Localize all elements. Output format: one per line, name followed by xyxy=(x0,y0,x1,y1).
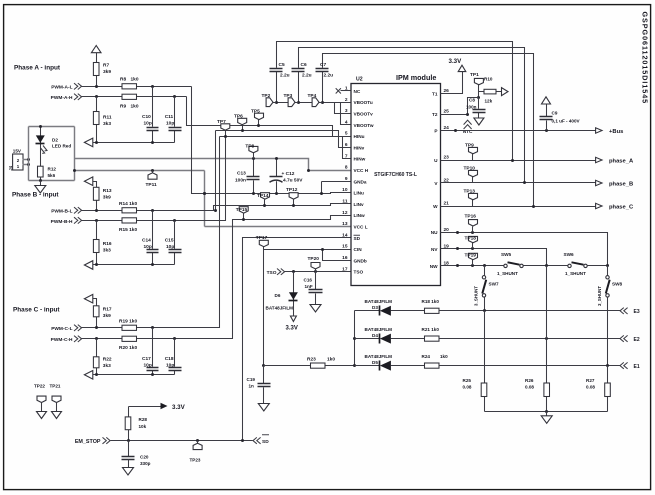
svg-text:TP8: TP8 xyxy=(245,143,254,149)
test point TP1 xyxy=(478,85,480,98)
svg-text:Phase A - input: Phase A - input xyxy=(14,65,61,72)
svg-text:R13: R13 xyxy=(103,188,112,194)
test point TP14 xyxy=(264,200,266,206)
svg-text:TSO: TSO xyxy=(267,270,277,276)
ground arrow phase B xyxy=(84,261,92,270)
test point TP13 xyxy=(472,200,474,207)
wire HINu feed L1 xyxy=(187,97,351,137)
wire J4 pin1 stub xyxy=(23,164,29,166)
svg-text:EM_STOP: EM_STOP xyxy=(75,439,101,445)
svg-text:C19: C19 xyxy=(247,377,256,382)
input connector PWM-A-L xyxy=(74,83,82,89)
svg-text:SW8: SW8 xyxy=(612,282,623,287)
svg-text:R12: R12 xyxy=(48,166,57,171)
shunt resistor R26 xyxy=(546,266,548,412)
svg-text:3k3: 3k3 xyxy=(103,363,111,369)
svg-text:TP11: TP11 xyxy=(146,182,158,188)
capacitor C20 xyxy=(128,441,130,457)
capacitor C8 xyxy=(478,98,480,119)
wire phase C ground bus xyxy=(93,374,175,376)
svg-text:SW5: SW5 xyxy=(501,252,512,257)
svg-text:P: P xyxy=(434,129,437,134)
svg-text:12: 12 xyxy=(342,210,348,216)
wire E bus left vertical xyxy=(354,311,356,366)
resistor R17 xyxy=(96,306,98,328)
output arrow phase_C xyxy=(596,203,602,208)
wire T2 line xyxy=(441,114,468,116)
svg-text:R25: R25 xyxy=(463,378,472,383)
svg-text:D4: D4 xyxy=(372,333,378,338)
svg-text:VBOOTu: VBOOTu xyxy=(354,100,373,105)
svg-text:10p: 10p xyxy=(166,244,174,250)
input connector TSO xyxy=(277,269,285,275)
wire PWM-B-H line xyxy=(82,137,226,221)
svg-text:5k6: 5k6 xyxy=(48,173,56,178)
test point TP12 xyxy=(293,200,295,206)
svg-text:2.2u: 2.2u xyxy=(280,73,290,79)
svg-text:E3: E3 xyxy=(634,309,640,315)
wire J4 pin2 stub xyxy=(23,159,29,161)
svg-text:D3: D3 xyxy=(372,305,378,310)
svg-text:20: 20 xyxy=(444,227,450,233)
wire EM_STOP line xyxy=(111,440,253,442)
svg-text:W: W xyxy=(433,204,438,209)
svg-text:J4: J4 xyxy=(8,165,13,170)
resistor R12 xyxy=(38,166,44,177)
svg-text:+ C12: + C12 xyxy=(282,171,295,177)
svg-text:1_SHUNT: 1_SHUNT xyxy=(497,271,518,276)
wire P +Bus line xyxy=(441,130,596,132)
svg-text:4.7u 50V: 4.7u 50V xyxy=(283,178,303,184)
svg-text:TP20: TP20 xyxy=(308,256,320,262)
test point TP3 xyxy=(295,102,299,104)
test point TP11 xyxy=(151,169,154,172)
svg-text:TP15: TP15 xyxy=(236,207,248,213)
capacitor C18 xyxy=(174,339,176,375)
svg-text:TP12: TP12 xyxy=(286,187,298,193)
svg-text:3k9: 3k9 xyxy=(103,195,111,201)
svg-text:TP2: TP2 xyxy=(262,93,271,99)
wire U phase_A line xyxy=(441,160,596,162)
svg-text:HINw: HINw xyxy=(354,157,366,162)
connector J4 15V xyxy=(13,154,23,170)
wire CIN net xyxy=(264,249,351,251)
wire D2 loop top xyxy=(29,126,75,128)
svg-text:C20: C20 xyxy=(140,454,149,459)
svg-text:TP7: TP7 xyxy=(217,119,226,125)
svg-text:PWM-A-L: PWM-A-L xyxy=(51,85,72,91)
capacitor C19 xyxy=(263,366,265,404)
svg-text:R26: R26 xyxy=(525,378,534,383)
wire LINu feed from A-L xyxy=(192,87,351,194)
svg-text:0,1 uF - 400V: 0,1 uF - 400V xyxy=(552,119,581,124)
input connector PWM-B-H xyxy=(74,217,82,223)
svg-text:3_SHUNT: 3_SHUNT xyxy=(597,286,602,306)
NTC marker xyxy=(464,120,472,129)
svg-text:TP13: TP13 xyxy=(464,189,476,195)
test point TP16 xyxy=(472,227,474,233)
svg-text:10: 10 xyxy=(342,187,348,193)
svg-text:C11: C11 xyxy=(165,114,174,120)
test point TP20 xyxy=(315,269,317,272)
svg-text:C8: C8 xyxy=(469,98,475,103)
svg-text:1n: 1n xyxy=(249,384,255,389)
svg-text:E1: E1 xyxy=(634,364,640,370)
wire V phase_B line xyxy=(441,182,596,184)
svg-text:TP14: TP14 xyxy=(257,193,269,199)
wire PWM-A-H line xyxy=(82,96,187,98)
svg-text:C16: C16 xyxy=(304,277,313,282)
svg-text:R14 1k0: R14 1k0 xyxy=(119,201,137,207)
wire GNDa bus junction xyxy=(203,192,206,195)
svg-text:C17: C17 xyxy=(142,356,151,362)
test point TP9 xyxy=(472,154,474,161)
ground below C19 xyxy=(258,404,269,412)
svg-text:SD: SD xyxy=(262,439,269,445)
switch SW8 3_SHUNT xyxy=(607,266,609,276)
svg-text:6: 6 xyxy=(345,142,348,148)
svg-text:TP21: TP21 xyxy=(50,383,61,388)
svg-text:R19 1k0: R19 1k0 xyxy=(119,318,137,324)
svg-text:C9: C9 xyxy=(552,111,558,116)
svg-text:0.08: 0.08 xyxy=(586,385,595,390)
svg-text:R16: R16 xyxy=(103,241,112,247)
svg-text:PWM-B-L: PWM-B-L xyxy=(51,209,72,215)
ground symbol below D2 block xyxy=(40,181,42,186)
wire VBOOTv step xyxy=(335,103,351,114)
wire D2 loop left xyxy=(28,127,30,181)
svg-text:C6: C6 xyxy=(301,62,307,68)
wire HINv feed L2 xyxy=(215,131,217,211)
svg-text:NW: NW xyxy=(430,264,438,269)
output arrow +Bus xyxy=(596,128,602,133)
svg-text:R9: R9 xyxy=(120,104,126,110)
svg-text:17: 17 xyxy=(342,266,348,272)
svg-text:2: 2 xyxy=(345,97,348,103)
wire VBOOTu line xyxy=(277,102,351,104)
svg-text:R10: R10 xyxy=(484,76,493,81)
wire phase A ground bus xyxy=(93,142,175,144)
svg-text:1k0: 1k0 xyxy=(131,104,139,110)
diode D6 BAT48JFILM xyxy=(293,272,295,317)
svg-text:TP3: TP3 xyxy=(284,93,293,99)
svg-text:1k0: 1k0 xyxy=(440,354,448,359)
switch SW7 3_SHUNT xyxy=(484,266,486,276)
svg-text:TP19: TP19 xyxy=(465,253,477,259)
test point TP23 xyxy=(197,441,199,444)
svg-text:100n: 100n xyxy=(235,177,246,183)
capacitor C6 with loop to phase_B xyxy=(299,48,525,183)
wire node to T2 xyxy=(468,98,479,115)
svg-text:TP16: TP16 xyxy=(465,213,477,219)
svg-text:3k3: 3k3 xyxy=(103,248,111,254)
wire HINw feed L3 xyxy=(220,137,351,159)
capacitor C13 xyxy=(253,159,255,194)
svg-text:LINv: LINv xyxy=(354,202,365,207)
svg-text:15V: 15V xyxy=(13,148,22,153)
resistor R13 xyxy=(96,188,98,211)
test point TP17 xyxy=(263,247,265,250)
svg-text:NU: NU xyxy=(431,230,438,235)
svg-text:1_SHUNT: 1_SHUNT xyxy=(565,271,586,276)
test point TP5 xyxy=(258,120,260,126)
input connector PWM-C-L xyxy=(74,325,82,331)
svg-text:NV: NV xyxy=(431,247,438,252)
resistor R10 xyxy=(479,91,502,93)
output connector E1 xyxy=(620,362,628,368)
svg-text:PWM-B-H: PWM-B-H xyxy=(51,219,73,225)
svg-text:R8: R8 xyxy=(120,76,126,82)
test point TP18 xyxy=(472,243,474,249)
svg-text:10k: 10k xyxy=(139,424,147,429)
svg-text:GSPG06112015DI1545: GSPG06112015DI1545 xyxy=(641,12,650,105)
output arrow phase_A xyxy=(596,157,602,162)
svg-text:PWM-C-H: PWM-C-H xyxy=(51,337,73,343)
svg-text:7: 7 xyxy=(345,153,348,159)
ground arrow phase C xyxy=(84,371,92,380)
wire W phase_C line xyxy=(441,206,596,208)
resistor R28 xyxy=(128,407,130,441)
svg-text:10p: 10p xyxy=(166,121,174,127)
svg-text:TP18: TP18 xyxy=(465,236,477,242)
svg-text:NC: NC xyxy=(354,89,361,94)
svg-text:TP5: TP5 xyxy=(251,108,260,114)
diode D5 BAT48JFILM xyxy=(355,365,380,367)
test point TP7 xyxy=(225,131,227,137)
output connector SD xyxy=(253,437,261,443)
svg-text:TP6: TP6 xyxy=(234,113,243,119)
wire GNDb branch xyxy=(323,250,351,261)
svg-text:13: 13 xyxy=(342,221,348,227)
svg-text:3k3: 3k3 xyxy=(103,121,111,127)
wire PWM-C-H line xyxy=(82,216,351,339)
svg-text:+Bus: +Bus xyxy=(609,129,623,135)
resistor R24 xyxy=(391,365,425,367)
wire 15V rail to VCCH xyxy=(75,159,351,171)
svg-text:R23: R23 xyxy=(307,356,316,362)
test point TP19 xyxy=(472,260,474,266)
svg-text:1: 1 xyxy=(345,86,348,92)
output connector E2 xyxy=(620,335,628,341)
svg-text:R11: R11 xyxy=(103,115,112,121)
svg-text:R7: R7 xyxy=(103,63,109,69)
svg-text:R20 1k0: R20 1k0 xyxy=(119,345,137,351)
wire SD net xyxy=(243,238,351,441)
svg-text:C13: C13 xyxy=(237,170,246,176)
svg-text:E2: E2 xyxy=(634,337,640,343)
svg-text:SW6: SW6 xyxy=(564,252,575,257)
svg-text:IPM module: IPM module xyxy=(396,73,436,82)
ground arrow phase A xyxy=(84,138,92,147)
test point TP4 xyxy=(319,102,323,104)
svg-text:C14: C14 xyxy=(142,238,151,244)
svg-text:23: 23 xyxy=(444,155,450,161)
LED D2 xyxy=(40,127,42,167)
pin 1 NC stub with cross xyxy=(341,90,351,92)
svg-text:0.08: 0.08 xyxy=(463,385,472,390)
svg-text:D2: D2 xyxy=(52,137,58,142)
15V power arrow (phase A top) xyxy=(91,46,101,53)
svg-text:2.2u: 2.2u xyxy=(302,73,312,79)
diode D3 BAT48JFILM xyxy=(355,310,380,312)
svg-text:8: 8 xyxy=(345,165,348,171)
svg-text:T1: T1 xyxy=(432,92,438,97)
svg-text:VCC H: VCC H xyxy=(354,168,369,173)
svg-text:330p: 330p xyxy=(140,461,151,466)
test point TP15 xyxy=(243,214,245,220)
capacitor C12 polarized xyxy=(276,159,278,194)
svg-text:LINu: LINu xyxy=(354,191,365,196)
node R10/C8 xyxy=(477,96,480,99)
svg-text:C18: C18 xyxy=(165,356,174,362)
svg-text:100n: 100n xyxy=(466,104,477,109)
svg-text:SD: SD xyxy=(354,236,361,241)
svg-text:25: 25 xyxy=(444,109,450,115)
svg-text:5: 5 xyxy=(345,131,348,137)
svg-text:PWM-A-H: PWM-A-H xyxy=(51,95,73,101)
svg-text:R24: R24 xyxy=(422,354,431,359)
svg-text:TP23: TP23 xyxy=(190,458,201,463)
wire NW line xyxy=(441,265,504,267)
wire shunt ground bus xyxy=(485,411,608,413)
wire GNDa line from D2 block xyxy=(75,170,205,172)
svg-text:12k: 12k xyxy=(485,98,493,103)
svg-text:Phase C - input: Phase C - input xyxy=(13,307,60,314)
test point TP6 xyxy=(242,125,244,131)
resistor R7 xyxy=(96,63,98,87)
ground below C8 xyxy=(474,118,484,125)
svg-text:R22: R22 xyxy=(103,356,112,362)
svg-text:3k9: 3k9 xyxy=(103,313,111,319)
svg-text:STGIF7CH60 TS-L: STGIF7CH60 TS-L xyxy=(374,172,417,178)
15V arrow phase B xyxy=(84,177,92,186)
svg-text:VBOOTw: VBOOTw xyxy=(354,123,374,128)
wire D2 loop bottom xyxy=(29,180,75,182)
wire NU line xyxy=(441,233,608,266)
svg-text:2.2u: 2.2u xyxy=(324,73,334,79)
arrow after R10 xyxy=(502,88,509,96)
svg-text:SW7: SW7 xyxy=(489,282,500,287)
svg-text:HINu: HINu xyxy=(354,134,365,139)
ground below C20 xyxy=(128,460,130,468)
shunt resistor R27 xyxy=(607,366,609,412)
svg-text:C15: C15 xyxy=(165,238,174,244)
svg-text:HINv: HINv xyxy=(354,145,365,150)
wire GNDa/VCCL vertical xyxy=(204,171,206,227)
svg-text:phase_B: phase_B xyxy=(609,181,633,187)
svg-text:1k0: 1k0 xyxy=(327,356,335,362)
svg-text:3.3V: 3.3V xyxy=(286,326,298,332)
svg-text:U2: U2 xyxy=(356,77,363,83)
input connector PWM-B-L xyxy=(74,207,82,213)
test point TP2 xyxy=(273,102,277,104)
test point TP8 xyxy=(253,153,255,159)
capacitor C15 xyxy=(174,221,176,265)
input connector EM_STOP xyxy=(103,437,111,443)
svg-text:10p: 10p xyxy=(144,362,152,368)
svg-text:BAT48JFILM: BAT48JFILM xyxy=(365,327,393,332)
resistor R8 xyxy=(122,84,137,89)
svg-text:3.3V: 3.3V xyxy=(449,58,463,65)
svg-text:TP9: TP9 xyxy=(465,143,474,149)
wire NV line xyxy=(441,249,547,266)
svg-text:phase_A: phase_A xyxy=(609,158,634,164)
input connector PWM-C-H xyxy=(74,336,82,342)
svg-text:C5: C5 xyxy=(279,62,285,68)
svg-text:14: 14 xyxy=(342,232,348,238)
svg-text:R17: R17 xyxy=(103,306,112,312)
svg-text:TP4: TP4 xyxy=(308,93,317,99)
svg-text:21: 21 xyxy=(444,201,450,207)
diode D4 BAT48JFILM xyxy=(355,338,380,340)
wire T1 to 3.3V xyxy=(441,72,463,94)
wire CIN vertical xyxy=(263,250,265,366)
wire PWM-B-L line xyxy=(82,204,351,211)
svg-text:D6: D6 xyxy=(275,293,281,298)
capacitor C10 xyxy=(152,87,154,143)
svg-text:GNDb: GNDb xyxy=(354,258,367,263)
output connector E3 xyxy=(620,308,628,314)
svg-text:R27: R27 xyxy=(586,378,595,383)
svg-text:9: 9 xyxy=(345,176,348,182)
capacitor C16 xyxy=(315,272,317,305)
wire PWM-C-L line xyxy=(82,137,220,328)
switch SW5 1_SHUNT xyxy=(504,264,507,267)
svg-text:phase_C: phase_C xyxy=(609,204,634,210)
svg-text:3.3V: 3.3V xyxy=(172,404,186,411)
capacitor C11 xyxy=(174,97,176,143)
svg-text:R21 1k0: R21 1k0 xyxy=(422,327,440,332)
arrow 3.3V right xyxy=(129,406,161,408)
resistor R20 xyxy=(122,336,137,341)
resistor R16 xyxy=(96,221,98,265)
svg-text:TP17: TP17 xyxy=(256,235,268,241)
svg-text:CIN: CIN xyxy=(354,247,363,252)
IC U2 IPM module outline xyxy=(351,84,441,286)
resistor R18 xyxy=(391,310,425,312)
svg-text:C7: C7 xyxy=(320,62,326,68)
svg-text:BAT48JFILM: BAT48JFILM xyxy=(365,354,393,359)
wire VCCL line to pin13 xyxy=(205,226,351,228)
ground below C16 xyxy=(310,305,321,313)
resistor R15 xyxy=(122,218,137,223)
svg-text:TP22: TP22 xyxy=(34,383,45,388)
power arrow 3.3V xyxy=(458,65,466,71)
resistor R9 xyxy=(122,94,137,99)
svg-text:TP1: TP1 xyxy=(470,72,479,78)
svg-text:16: 16 xyxy=(342,255,348,261)
svg-text:BAT48JFILM: BAT48JFILM xyxy=(365,299,393,304)
resistor R22 xyxy=(96,339,98,375)
resistor R14 xyxy=(122,208,137,213)
svg-text:LINw: LINw xyxy=(354,213,366,218)
svg-text:TSO: TSO xyxy=(354,270,364,275)
output arrow phase_B xyxy=(596,180,602,185)
svg-text:1k0: 1k0 xyxy=(131,76,139,82)
wire VBOOTw step xyxy=(341,103,351,125)
resistor R23 xyxy=(264,365,355,367)
svg-text:15: 15 xyxy=(342,244,348,250)
svg-text:Phase B - input: Phase B - input xyxy=(12,192,59,199)
capacitor C17 xyxy=(152,328,154,375)
svg-text:VCC L: VCC L xyxy=(354,225,368,230)
svg-text:R28: R28 xyxy=(139,417,148,422)
svg-text:TP10: TP10 xyxy=(464,166,476,172)
capacitor C9 xyxy=(546,105,548,131)
svg-text:3k9: 3k9 xyxy=(103,69,111,75)
svg-text:11: 11 xyxy=(342,199,347,205)
switch SW6 1_SHUNT xyxy=(568,264,571,267)
